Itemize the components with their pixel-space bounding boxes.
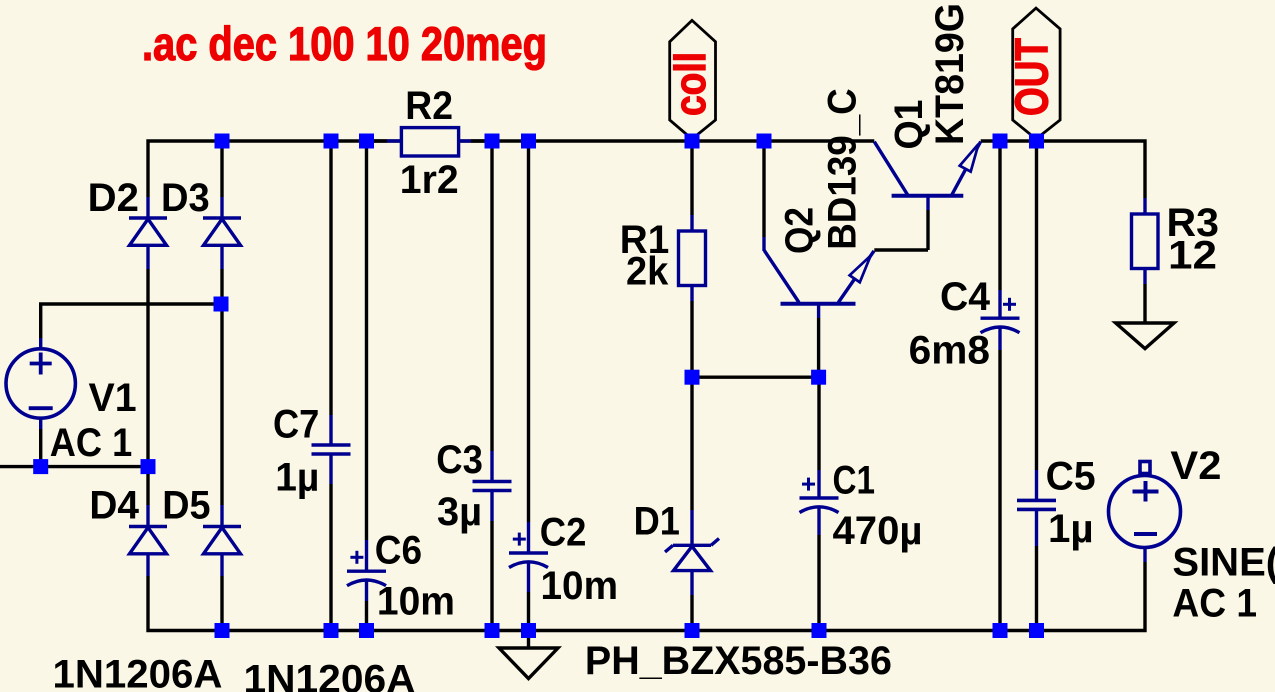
svg-text:12: 12 (1168, 234, 1217, 278)
svg-text:470µ: 470µ (833, 509, 923, 553)
svg-text:10m: 10m (377, 579, 455, 623)
net flag OUT (1013, 8, 1060, 139)
wire C1 top pin (817, 470, 820, 498)
svg-text:1r2: 1r2 (400, 158, 459, 202)
node V1 minus (33, 459, 48, 474)
ground (bottom rail) (499, 631, 558, 679)
svg-text:Q1: Q1 (887, 100, 931, 150)
wire C7 top (329, 141, 332, 415)
node C6/bottom rail (359, 623, 374, 638)
wire D5 anode pin (220, 553, 223, 576)
wire C2 top pin (527, 522, 530, 553)
svg-text:1N1206A: 1N1206A (244, 658, 416, 692)
wire D5 anode down to bottom rail (220, 576, 223, 631)
svg-text:C2: C2 (540, 510, 587, 554)
wire D3 cathode up (220, 141, 223, 197)
wire V2 minus pin (1143, 548, 1146, 562)
node D5/bottom rail (215, 623, 230, 638)
wire C1 bottom (817, 535, 820, 631)
wire C3 bottom pin (490, 491, 493, 522)
wire top rail right part (OUT net) (981, 141, 1145, 198)
wire C2 bottom pin (527, 562, 530, 592)
wire R2 right pin (459, 139, 471, 142)
node C3/bottom rail (485, 623, 500, 638)
wire Q1 base to Q2 emitter (874, 248, 928, 251)
svg-text:D1: D1 (634, 500, 680, 544)
svg-text:KT819G: KT819G (928, 3, 972, 145)
wire C7 bottom pin (329, 454, 332, 484)
wire Q1 base down (926, 210, 929, 250)
node Q2 collector (757, 134, 772, 149)
node coll/R1 (685, 134, 700, 149)
wire bottom rail (ground net) (148, 562, 1145, 631)
node V1 minus / D2 anode (141, 459, 156, 474)
svg-text:C6: C6 (375, 529, 422, 573)
svg-text:D3: D3 (161, 176, 210, 220)
wire D1 anode pin (690, 571, 693, 595)
wire top rail between R2 and Q1 collector (459, 139, 874, 142)
capacitor C2 (polarized) (509, 533, 548, 568)
svg-text:SINE(: SINE( (1172, 540, 1275, 584)
wire R1-D1 node to Q2 base / C1 (692, 376, 819, 379)
svg-text:R2: R2 (405, 84, 453, 128)
node Q2 base / C1 (811, 370, 826, 385)
wire C7 bottom (329, 484, 332, 631)
wire Q2 collector pin (762, 237, 765, 251)
svg-text:.ac dec 100 10 20meg: .ac dec 100 10 20meg (142, 17, 547, 70)
node D3/top rail (215, 134, 230, 149)
svg-text:2k: 2k (626, 250, 669, 294)
wire C3 top (490, 141, 493, 451)
svg-text:AC 1: AC 1 (50, 421, 132, 465)
capacitor C6 (polarized) (347, 551, 386, 586)
svg-text:C3: C3 (436, 438, 483, 482)
diode D5 (203, 527, 241, 554)
wire C5 bottom pin (1035, 509, 1038, 546)
wire V1 minus pin (39, 418, 42, 429)
wire C4 bottom (998, 350, 1001, 631)
wire C4 top pin (998, 290, 1001, 318)
svg-text:Q2: Q2 (778, 207, 822, 254)
wire C2 bottom (527, 592, 530, 631)
capacitor C1 (polarized) (800, 478, 839, 513)
wire D3 anode pin (220, 245, 223, 269)
capacitor C7 (312, 445, 351, 454)
ground (R3) (1116, 323, 1174, 349)
diode D2 (129, 218, 167, 245)
voltage source V2 (1109, 462, 1181, 548)
svg-text:AC 1: AC 1 (1172, 582, 1257, 626)
wire C5 top pin (1035, 470, 1038, 500)
wire V1 minus vertical (39, 429, 42, 467)
capacitor C4 (polarized) (981, 298, 1020, 333)
wire C3 top pin (490, 451, 493, 482)
wire D2 anode pin (146, 245, 149, 269)
wire C6 bottom pin (365, 580, 368, 601)
wire R1 top (690, 141, 693, 215)
capacitor C5 (1017, 500, 1056, 509)
node C4/bottom rail (993, 623, 1008, 638)
svg-text:OUT: OUT (1006, 38, 1058, 116)
node C7/bottom rail (324, 623, 339, 638)
wire R1 bottom pin (690, 286, 693, 302)
svg-text:1N1206A: 1N1206A (53, 653, 223, 692)
node C4/OUT rail (993, 134, 1008, 149)
wire C7 top pin (329, 415, 332, 445)
wire C1 top (817, 377, 820, 470)
svg-text:C4: C4 (940, 275, 991, 319)
wire D3 cathode pin (220, 197, 223, 218)
node C7/top rail (324, 134, 339, 149)
wire R3 bottom pin (1143, 269, 1146, 285)
svg-text:3µ: 3µ (437, 490, 482, 534)
wire C1 bottom pin (817, 507, 820, 535)
wire D4 anode pin (146, 553, 149, 576)
wire D5 cathode pin (220, 505, 223, 527)
capacitor C3 (473, 482, 512, 491)
wire D3 anode to D5 cathode (220, 269, 223, 505)
wire R3 bottom to ground (1143, 284, 1146, 323)
wire D1 cathode pin (690, 510, 693, 545)
svg-text:1µ: 1µ (1048, 507, 1094, 551)
net flag coll (670, 20, 716, 139)
wire V1 minus horizontal to D2/D4 node (0, 465, 148, 468)
wire C5 bottom (1035, 546, 1038, 631)
wire C3 bottom (490, 521, 493, 631)
svg-text:C5: C5 (1046, 455, 1096, 499)
resistor R2 (401, 128, 458, 156)
svg-text:D2: D2 (88, 176, 139, 220)
node C1/bottom rail (812, 623, 827, 638)
diode D3 (203, 218, 241, 245)
wire Q2 base down to mid node (817, 318, 820, 377)
svg-text:C7: C7 (273, 403, 319, 447)
wire Q2 collector vertical (762, 141, 765, 237)
wire V1 plus to D3/D5 node (41, 304, 222, 338)
svg-text:10m: 10m (541, 564, 619, 608)
svg-text:BD139_C: BD139_C (821, 88, 865, 250)
wire C6 top pin (365, 540, 368, 571)
resistor R3 (1132, 214, 1159, 269)
transistor Q2 (NPN) (764, 251, 874, 319)
svg-text:D5: D5 (162, 483, 210, 527)
wire C6 bottom (365, 601, 368, 631)
wire V1 plus pin (39, 338, 42, 349)
svg-text:PH_BZX585-B36: PH_BZX585-B36 (585, 639, 892, 683)
wire C4 top (998, 141, 1001, 290)
svg-text:D4: D4 (89, 483, 139, 527)
svg-text:V1: V1 (89, 376, 137, 420)
node R1/D1 (685, 370, 700, 385)
node C6/top rail (359, 134, 374, 149)
zener diode D1 (665, 539, 719, 571)
node V1 plus / D3 anode (214, 297, 229, 312)
wire D4 cathode pin (146, 505, 149, 527)
voltage source V1 (6, 349, 75, 418)
svg-text:coll: coll (666, 52, 715, 116)
wire top rail left part (coll net) (148, 141, 401, 197)
node D1/bottom rail (685, 623, 700, 638)
node C3/top rail (485, 134, 500, 149)
wire D1 anode to bottom rail (690, 595, 693, 631)
wire R1 top pin (690, 215, 693, 231)
wire R2 right (471, 139, 492, 142)
wire C4 bottom pin (998, 327, 1001, 350)
svg-text:C1: C1 (833, 459, 876, 503)
node ground/bottom rail (521, 623, 536, 638)
wire C2 top (527, 141, 530, 522)
transistor Q1 (NPN) (874, 142, 980, 211)
resistor R1 (679, 231, 706, 286)
node C2/top rail (521, 134, 536, 149)
wire C5 top (1035, 141, 1038, 470)
wire R3 top pin (1143, 198, 1146, 214)
wire C6 top (365, 141, 368, 540)
wire D2 cathode pin (146, 197, 149, 218)
node OUT flag/C5 (1029, 134, 1044, 149)
wire R2 left pin (387, 139, 401, 142)
wire R2 left (367, 139, 388, 142)
wire D2 anode to D4 cathode (146, 269, 149, 505)
node C5/bottom rail (1029, 623, 1044, 638)
svg-text:1µ: 1µ (275, 455, 319, 499)
wire R1 bottom to D1 (690, 301, 693, 510)
svg-text:6m8: 6m8 (909, 328, 990, 372)
diode D4 (129, 527, 167, 554)
svg-text:V2: V2 (1170, 444, 1221, 488)
